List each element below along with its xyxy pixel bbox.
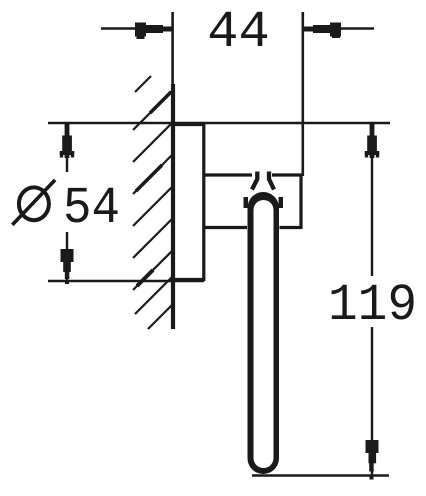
arrow 119 down (stepped) [366,440,379,480]
diameter symbol slash [12,180,55,225]
dimension leader 44 right [316,27,374,30]
baseline at bottom (y=477) [252,474,389,476]
wall hatch bold segment 2 [136,165,162,191]
diameter symbol circle [19,187,49,220]
mounting plate outline [173,125,204,280]
holder bar outer (stadium) [248,192,280,474]
arrow D54 up (stepped) [60,124,74,158]
pivot clip peak left stub [252,172,257,190]
dimension line 119 (x=372, broken by text) [371,123,373,476]
arrow D54 down (stepped) [61,249,74,284]
pivot clip peak right stub [269,172,274,190]
wall hatch bold segment 3 [137,270,153,286]
wall face line (bold) [171,84,175,329]
extension line top (plate top level y=123) [48,122,390,124]
extension line right of 44 dim (x=302.5) [301,12,304,176]
svg-text:54: 54 [63,179,120,238]
wall face extension line (thin upper part x=173) [171,12,174,86]
arrow 44 right (points left, stepped) [304,23,342,39]
bracket arm outline (top line with gap for pivot, bottom with gap for bar, right edge) [204,174,301,230]
dimension leader 44 left [101,27,160,30]
bar side bump left [244,197,249,208]
arrow 44 left (points right, stepped) [135,23,173,40]
extension line bottom (plate bottom level y=281) [48,280,204,282]
svg-text:44: 44 [207,3,269,62]
holder bar inner white [254,200,274,468]
wall hatch lines [133,76,173,329]
dimension line D54 (x=67, broken by text) [66,123,68,281]
wall hatch bold segment 1 [150,92,171,113]
bar side bump right [279,197,284,208]
svg-text:119: 119 [328,276,417,335]
arrow 119 up (stepped) [365,124,379,158]
